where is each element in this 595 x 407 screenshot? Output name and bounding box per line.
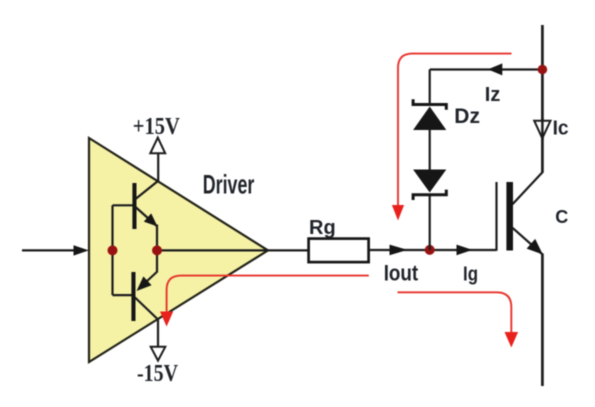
IGBT Q3 gate line <box>495 182 497 251</box>
wire Iz horizontal <box>430 68 543 70</box>
IGBT Q3 emitter diagonal <box>513 228 543 255</box>
zener D1 cathode bar <box>413 99 446 109</box>
wire base Q1 <box>113 204 133 206</box>
wire base bus vertical <box>111 205 113 295</box>
transistor Q2 collector <box>135 298 158 320</box>
wire zener bottom to node C <box>429 196 431 250</box>
transistor Q1 emitter arrowhead <box>144 213 158 226</box>
svg-text:Driver: Driver <box>203 170 255 200</box>
red current path 1 (driver sink loop) <box>167 276 369 313</box>
arrowhead Ic (open, pointing down) <box>534 121 550 139</box>
node D (collector rail) <box>538 65 548 75</box>
svg-text:C: C <box>555 207 568 227</box>
resistor Rg <box>309 239 369 263</box>
arrowhead Ig on wire <box>457 245 473 256</box>
red current path 3 (zener current loop) <box>398 54 512 206</box>
+15V supply arrow <box>150 138 165 154</box>
wire base Q2 <box>113 294 132 296</box>
arrowhead Iout on wire <box>390 245 408 256</box>
red current path 2 (gate current loop) <box>398 292 512 333</box>
node A (input/base) <box>108 245 118 255</box>
op-amp driver U1 triangle body <box>89 138 268 362</box>
red arrowhead path 2 <box>505 332 519 348</box>
transistor Q1 (NPN upper) bar <box>132 183 136 229</box>
IGBT Q3 body bar <box>506 182 513 251</box>
svg-text:Ig: Ig <box>463 263 478 285</box>
svg-text:Dz: Dz <box>454 105 480 128</box>
IGBT Q3 emitter arrowhead <box>527 239 543 255</box>
red arrowhead path 1 <box>160 312 173 327</box>
transistor Q2 emitter arrowhead <box>137 276 152 291</box>
node B (emitter junction) <box>152 245 162 255</box>
wire emitter rail down <box>541 254 544 387</box>
wire between zeners <box>429 130 431 170</box>
svg-text:-15V: -15V <box>137 361 179 387</box>
zener D1 body (cathode up) <box>413 107 446 131</box>
zener D2 body (cathode down) <box>413 170 446 193</box>
svg-text:Iout: Iout <box>384 261 419 286</box>
wire +15V vertical <box>157 153 159 182</box>
wire resistor to IGBT gate <box>369 249 497 251</box>
zener D2 cathode bar <box>413 190 446 200</box>
wire input from left <box>22 249 76 251</box>
-15V supply arrow <box>151 347 166 361</box>
wire node B to resistor Rg <box>157 249 309 251</box>
wire node B down to Q2 emitter <box>156 250 158 272</box>
wire Q2 collector to -15V <box>157 319 159 348</box>
svg-text:+15V: +15V <box>133 114 181 140</box>
input arrowhead <box>74 245 89 255</box>
transistor Q1 collector <box>136 181 159 200</box>
svg-text:Iz: Iz <box>485 84 501 106</box>
transistor Q1 emitter <box>136 207 157 226</box>
arrowhead Iz (pointing left) <box>488 63 502 75</box>
wire collector rail top <box>541 25 544 173</box>
IGBT Q3 collector diagonal <box>513 172 543 205</box>
node C (gate/zener junction) <box>425 245 435 255</box>
transistor Q2 emitter diagonal <box>140 272 157 288</box>
red arrowhead path 3 <box>392 205 404 221</box>
wire zener top up <box>429 70 431 105</box>
wire Q1 emitter to node B <box>156 225 158 251</box>
svg-text:Ic: Ic <box>553 117 569 139</box>
svg-text:Rg: Rg <box>309 217 336 239</box>
transistor Q2 (PNP lower) bar <box>131 272 135 321</box>
